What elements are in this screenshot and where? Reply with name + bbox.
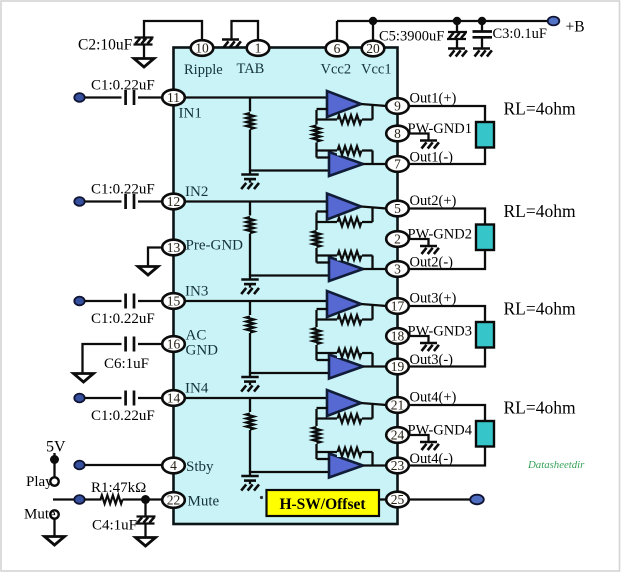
wire C3 lower stem [481, 37, 483, 48]
wire out- ch2 [363, 268, 387, 270]
pin 2 PW-GND2 [386, 231, 409, 247]
load resistor RL ch2 [476, 225, 494, 251]
svg-text:Vcc2: Vcc2 [321, 62, 352, 78]
wire feedback bus ch2 [315, 213, 317, 263]
wire PW-GND1 [409, 134, 429, 141]
wire out+ to load ch2 [409, 209, 486, 225]
pin 16 AC GND [162, 336, 185, 352]
svg-text:17: 17 [391, 299, 405, 314]
capacitor C1 ch2 [124, 194, 127, 209]
resistor feedback B ch4 [337, 447, 362, 457]
wire C6 to ground [83, 344, 122, 374]
ground under Mute [45, 537, 65, 546]
capacitor C1 ch1 [124, 90, 127, 105]
svg-text:C1:0.22uF: C1:0.22uF [91, 311, 155, 327]
junction Vcc1 rail [369, 17, 377, 25]
svg-text:6: 6 [334, 41, 341, 56]
ground under C3 [473, 47, 490, 49]
wire block to pin 25 [379, 498, 387, 500]
resistor feedback B ch3 [337, 348, 362, 358]
svg-text:RL=4ohm: RL=4ohm [504, 398, 576, 418]
svg-text:Vcc1: Vcc1 [361, 62, 392, 78]
wire input ch4 to C1 [85, 397, 122, 399]
svg-text:1: 1 [255, 41, 262, 56]
ground divider ch3 [249, 372, 251, 377]
IC body U1 (20-pin power amp) [174, 48, 398, 525]
wire feedback A ch4 [317, 417, 373, 419]
wire input ch3 to C1 [85, 300, 122, 302]
resistor feedback B ch1 [337, 146, 362, 156]
wire bus to op-amp B ch2 [317, 261, 330, 263]
svg-text:5: 5 [394, 201, 401, 216]
wire TAB loop to ground [232, 21, 259, 41]
wire feedback B ch2 [317, 254, 373, 256]
pin 24 PW-GND4 [386, 427, 409, 443]
pin 10 Ripple [191, 40, 214, 56]
terminal Mute input [74, 495, 84, 504]
op-amp B ch1 [329, 152, 363, 176]
ground under C4 [136, 538, 156, 547]
svg-text:Stby: Stby [186, 459, 214, 475]
resistor feedback A ch3 [337, 315, 362, 325]
op-amp B ch4 [329, 454, 363, 478]
wire feedback drop A ch1 [371, 105, 373, 120]
wire bus to op-amp B ch1 [317, 156, 330, 158]
svg-text:Out4(+): Out4(+) [410, 390, 457, 406]
input terminal ch4 [74, 394, 84, 403]
input terminal ch2 [74, 197, 84, 206]
op-amp A ch1 [327, 91, 361, 117]
svg-text:C4:1uF: C4:1uF [92, 518, 137, 534]
wire input divider ch2 [249, 202, 251, 276]
wire out- ch1 [363, 163, 387, 165]
svg-text:RL=4ohm: RL=4ohm [504, 99, 576, 119]
capacitor C3 plates [473, 30, 493, 33]
resistor bus ch3 [312, 327, 321, 345]
resistor bus ch1 [312, 125, 321, 143]
resistor divider ch4 [246, 412, 255, 430]
resistor divider ch1 [246, 112, 255, 130]
svg-text:RL=4ohm: RL=4ohm [504, 201, 576, 221]
wire load to out- ch3 [409, 348, 486, 367]
ground under C2 [134, 59, 154, 68]
wire feedback drop B ch2 [371, 256, 373, 270]
svg-text:18: 18 [391, 329, 405, 344]
wire C4 lower stem [144, 524, 146, 538]
wire C6 to pin 16 [138, 343, 163, 345]
svg-text:25: 25 [391, 492, 405, 507]
wire feedback drop B ch3 [371, 353, 373, 367]
svg-text:C1:0.22uF: C1:0.22uF [91, 408, 155, 424]
pin 25 [386, 492, 409, 508]
resistor bus ch2 [312, 230, 321, 248]
wire bus to op-amp A ch3 [317, 308, 328, 310]
wire lower input ch4 [250, 471, 330, 473]
terminal pin 25 [470, 495, 484, 505]
resistor feedback A ch2 [337, 217, 362, 227]
wire feedback B ch4 [317, 451, 373, 453]
ground PW-GND4 [420, 441, 437, 443]
input terminal ch3 [74, 297, 84, 306]
wire feedback A ch2 [317, 221, 373, 223]
ground divider ch4 [249, 471, 251, 476]
wire load to out- ch1 [409, 148, 486, 165]
wire lower input ch3 [250, 372, 330, 374]
svg-text:C1:0.22uF: C1:0.22uF [91, 182, 155, 198]
capacitor C1 ch3 [124, 294, 127, 309]
op-amp A ch4 [327, 390, 361, 416]
wire C5 lower stem [456, 40, 458, 49]
pin 8 PW-GND1 [386, 126, 409, 142]
wire out+ ch2 [361, 207, 387, 209]
ground at TAB [222, 38, 239, 40]
svg-text:3: 3 [394, 262, 401, 277]
wire feedback A ch3 [317, 318, 373, 320]
wire out- ch3 [363, 365, 387, 367]
wire out+ ch3 [361, 304, 387, 306]
pin 6 Vcc2 [326, 41, 349, 57]
svg-text:Play: Play [26, 474, 53, 490]
wire out+ to load ch3 [409, 306, 486, 322]
wire bus to op-amp A ch4 [317, 407, 328, 409]
resistor bus ch4 [312, 426, 321, 444]
wire to R1 [85, 498, 102, 500]
pin 17 Out3(+) [386, 298, 409, 314]
pin 14 IN4 [162, 390, 185, 406]
wire input divider ch3 [249, 301, 251, 373]
wire out+ to load ch4 [409, 405, 486, 421]
svg-text:4: 4 [170, 458, 177, 473]
svg-text:13: 13 [167, 240, 181, 255]
wire Mute contact to ground [53, 519, 55, 537]
ground divider ch1 [249, 170, 251, 175]
op-amp B ch3 [329, 355, 363, 379]
wire pin 25 to terminal [409, 498, 471, 500]
wire feedback drop B ch1 [371, 151, 373, 165]
wire input divider ch1 [249, 98, 251, 171]
svg-text:16: 16 [167, 337, 181, 352]
junction C3 rail [478, 17, 486, 25]
ground divider ch2 [249, 275, 251, 280]
wire feedback drop A ch4 [371, 404, 373, 419]
wire pin13 to ground [148, 248, 163, 267]
svg-text:H-SW/Offset: H-SW/Offset [279, 496, 366, 513]
wire C1 ch2 to pin 12 [138, 200, 163, 202]
svg-text:23: 23 [391, 458, 405, 473]
svg-text:20: 20 [366, 41, 380, 56]
svg-text:Out1(+): Out1(+) [410, 91, 457, 107]
ground PW-GND2 [420, 245, 437, 247]
ground under C5 [448, 47, 465, 49]
terminal Stby [74, 461, 84, 470]
pin 5 Out2(+) [386, 201, 409, 217]
wire PW-GND2 [409, 239, 429, 246]
+B terminal [548, 17, 560, 26]
wire lower input ch2 [250, 274, 330, 276]
capacitor C2 hatched plate [135, 36, 154, 38]
load resistor RL ch3 [476, 322, 494, 348]
svg-text:Out2(+): Out2(+) [410, 193, 457, 209]
svg-text:21: 21 [391, 398, 405, 413]
pin 3 Out2(-) [386, 261, 409, 277]
wire C2 to pin 10 [144, 21, 202, 42]
svg-text:11: 11 [167, 90, 180, 105]
wire feedback drop A ch3 [371, 305, 373, 320]
wire C2 lower stem [143, 45, 145, 59]
wire bus to op-amp A ch1 [317, 108, 328, 110]
wire feedback A ch1 [317, 118, 373, 120]
svg-text:GND: GND [186, 343, 219, 359]
wire feedback B ch1 [317, 149, 373, 151]
wire R1 to pin 22 [123, 498, 163, 500]
pin 4 Stby [162, 458, 185, 474]
svg-text:R1:47kΩ: R1:47kΩ [91, 480, 146, 496]
svg-text:2: 2 [394, 232, 401, 247]
wire C1 ch4 to pin 14 [138, 397, 163, 399]
wire Vcc1 riser [372, 21, 374, 41]
wire out- ch4 [363, 464, 387, 466]
svg-text:15: 15 [167, 294, 181, 309]
resistor feedback A ch4 [337, 414, 362, 424]
svg-text:5V: 5V [46, 439, 66, 456]
wire C1 ch1 to pin 11 [138, 96, 163, 98]
pin 7 Out1(-) [386, 156, 409, 172]
input terminal ch1 [74, 93, 84, 102]
op-amp B ch2 [329, 257, 363, 281]
wire IN2 to op-amp ch2 [185, 200, 328, 202]
pin 21 Out4(+) [386, 397, 409, 413]
svg-text:Ripple: Ripple [184, 62, 223, 78]
wire IN1 to op-amp ch1 [185, 96, 328, 98]
pin 19 Out3(-) [386, 359, 409, 375]
svg-text:IN3: IN3 [185, 284, 208, 300]
op-amp A ch2 [327, 194, 361, 220]
wire feedback B ch3 [317, 352, 373, 354]
pin 22 Mute [162, 492, 185, 508]
wire feedback bus ch4 [315, 409, 317, 459]
wire bus to op-amp B ch4 [317, 458, 330, 460]
ground Pre-GND [138, 267, 158, 276]
wire out+ ch4 [361, 403, 387, 405]
wire IN3 to op-amp ch3 [185, 300, 328, 302]
svg-text:C1:0.22uF: C1:0.22uF [91, 78, 155, 94]
svg-text:Pre-GND: Pre-GND [186, 238, 244, 254]
wire bus to op-amp A ch2 [317, 210, 328, 212]
wire out+ to load ch1 [409, 106, 486, 122]
svg-text:C5:3900uF: C5:3900uF [379, 29, 444, 45]
svg-text:10: 10 [195, 41, 209, 56]
wire PW-GND3 [409, 336, 429, 343]
wire feedback drop B ch4 [371, 452, 373, 466]
wire Vcc2 riser [336, 21, 338, 41]
pin 11 IN1 [162, 90, 185, 106]
pin 13 Pre-GND [162, 240, 185, 256]
pin 9 Out1(+) [386, 98, 409, 114]
switch contact Mute [50, 510, 58, 518]
svg-text:12: 12 [167, 194, 181, 209]
tiny dot before block [260, 496, 263, 499]
pin 15 IN3 [162, 293, 185, 309]
svg-text:IN1: IN1 [179, 106, 202, 122]
wire 5V to Play [53, 453, 55, 478]
junction 5V [50, 455, 59, 464]
svg-text:+B: +B [566, 19, 585, 36]
switch contact Play [50, 477, 58, 485]
capacitor C5 hatched plate [448, 31, 467, 33]
svg-text:RL=4ohm: RL=4ohm [504, 299, 576, 319]
wire feedback bus ch3 [315, 310, 317, 360]
svg-text:19: 19 [391, 359, 405, 374]
op-amp A ch3 [327, 291, 361, 317]
wire IN4 to op-amp ch4 [185, 397, 328, 399]
ground PW-GND3 [420, 342, 437, 344]
resistor feedback A ch1 [337, 115, 362, 125]
pin 20 Vcc1 [362, 41, 385, 57]
+B supply rail [337, 20, 551, 22]
wire load to out- ch2 [409, 250, 486, 269]
wire bus to op-amp B ch3 [317, 359, 330, 361]
capacitor C4 hatched plate [137, 515, 156, 517]
wire input divider ch4 [249, 398, 251, 472]
capacitor C6 [124, 337, 127, 352]
load resistor RL ch1 [476, 122, 494, 148]
wire Stby to pin 4 [85, 464, 163, 466]
wire C3 stem [481, 21, 483, 31]
wire load to out- ch4 [409, 447, 486, 466]
wire feedback bus ch1 [315, 110, 317, 158]
svg-text:IN4: IN4 [185, 381, 209, 397]
resistor divider ch2 [246, 216, 255, 234]
H-SW/Offset block [267, 490, 380, 516]
svg-text:14: 14 [167, 391, 181, 406]
load resistor RL ch4 [476, 421, 494, 447]
pin 12 IN2 [162, 194, 185, 210]
junction C5 rail [453, 17, 461, 25]
wire PW-GND4 [409, 435, 429, 442]
svg-text:AC: AC [186, 328, 207, 344]
ground PW-GND1 [420, 139, 437, 141]
svg-text:9: 9 [394, 99, 401, 114]
svg-text:TAB: TAB [237, 61, 265, 77]
ground under C6 [74, 374, 94, 383]
resistor feedback B ch2 [337, 251, 362, 261]
wire switch lever [53, 498, 80, 500]
wire C1 ch3 to pin 15 [138, 300, 163, 302]
junction R1 C4 [141, 495, 150, 504]
pin 18 PW-GND3 [386, 328, 409, 344]
resistor R1 47k [101, 495, 123, 503]
svg-text:IN2: IN2 [185, 184, 208, 200]
svg-text:24: 24 [391, 428, 405, 443]
wire input ch1 to C1 [85, 96, 122, 98]
svg-text:Out3(+): Out3(+) [410, 291, 457, 307]
wire input ch2 to C1 [85, 200, 122, 202]
svg-text:Datasheetdir: Datasheetdir [527, 459, 585, 471]
pin 23 Out4(-) [386, 458, 409, 474]
wire C4 stem [144, 500, 146, 517]
svg-text:C3:0.1uF: C3:0.1uF [493, 26, 547, 42]
svg-text:C6:1uF: C6:1uF [104, 356, 149, 372]
resistor divider ch3 [246, 315, 255, 333]
wire C5 stem [456, 21, 458, 33]
wire feedback drop A ch2 [371, 207, 373, 222]
wire out+ ch1 [361, 104, 387, 106]
svg-text:Mute: Mute [188, 494, 220, 510]
svg-text:Mute: Mute [24, 507, 56, 523]
svg-text:7: 7 [394, 157, 401, 172]
svg-text:22: 22 [167, 493, 181, 508]
wire lower input ch1 [250, 169, 330, 171]
capacitor C1 ch4 [124, 391, 127, 406]
svg-text:C2:10uF: C2:10uF [78, 37, 133, 54]
svg-text:8: 8 [394, 126, 401, 141]
pin 1 TAB [247, 40, 270, 56]
